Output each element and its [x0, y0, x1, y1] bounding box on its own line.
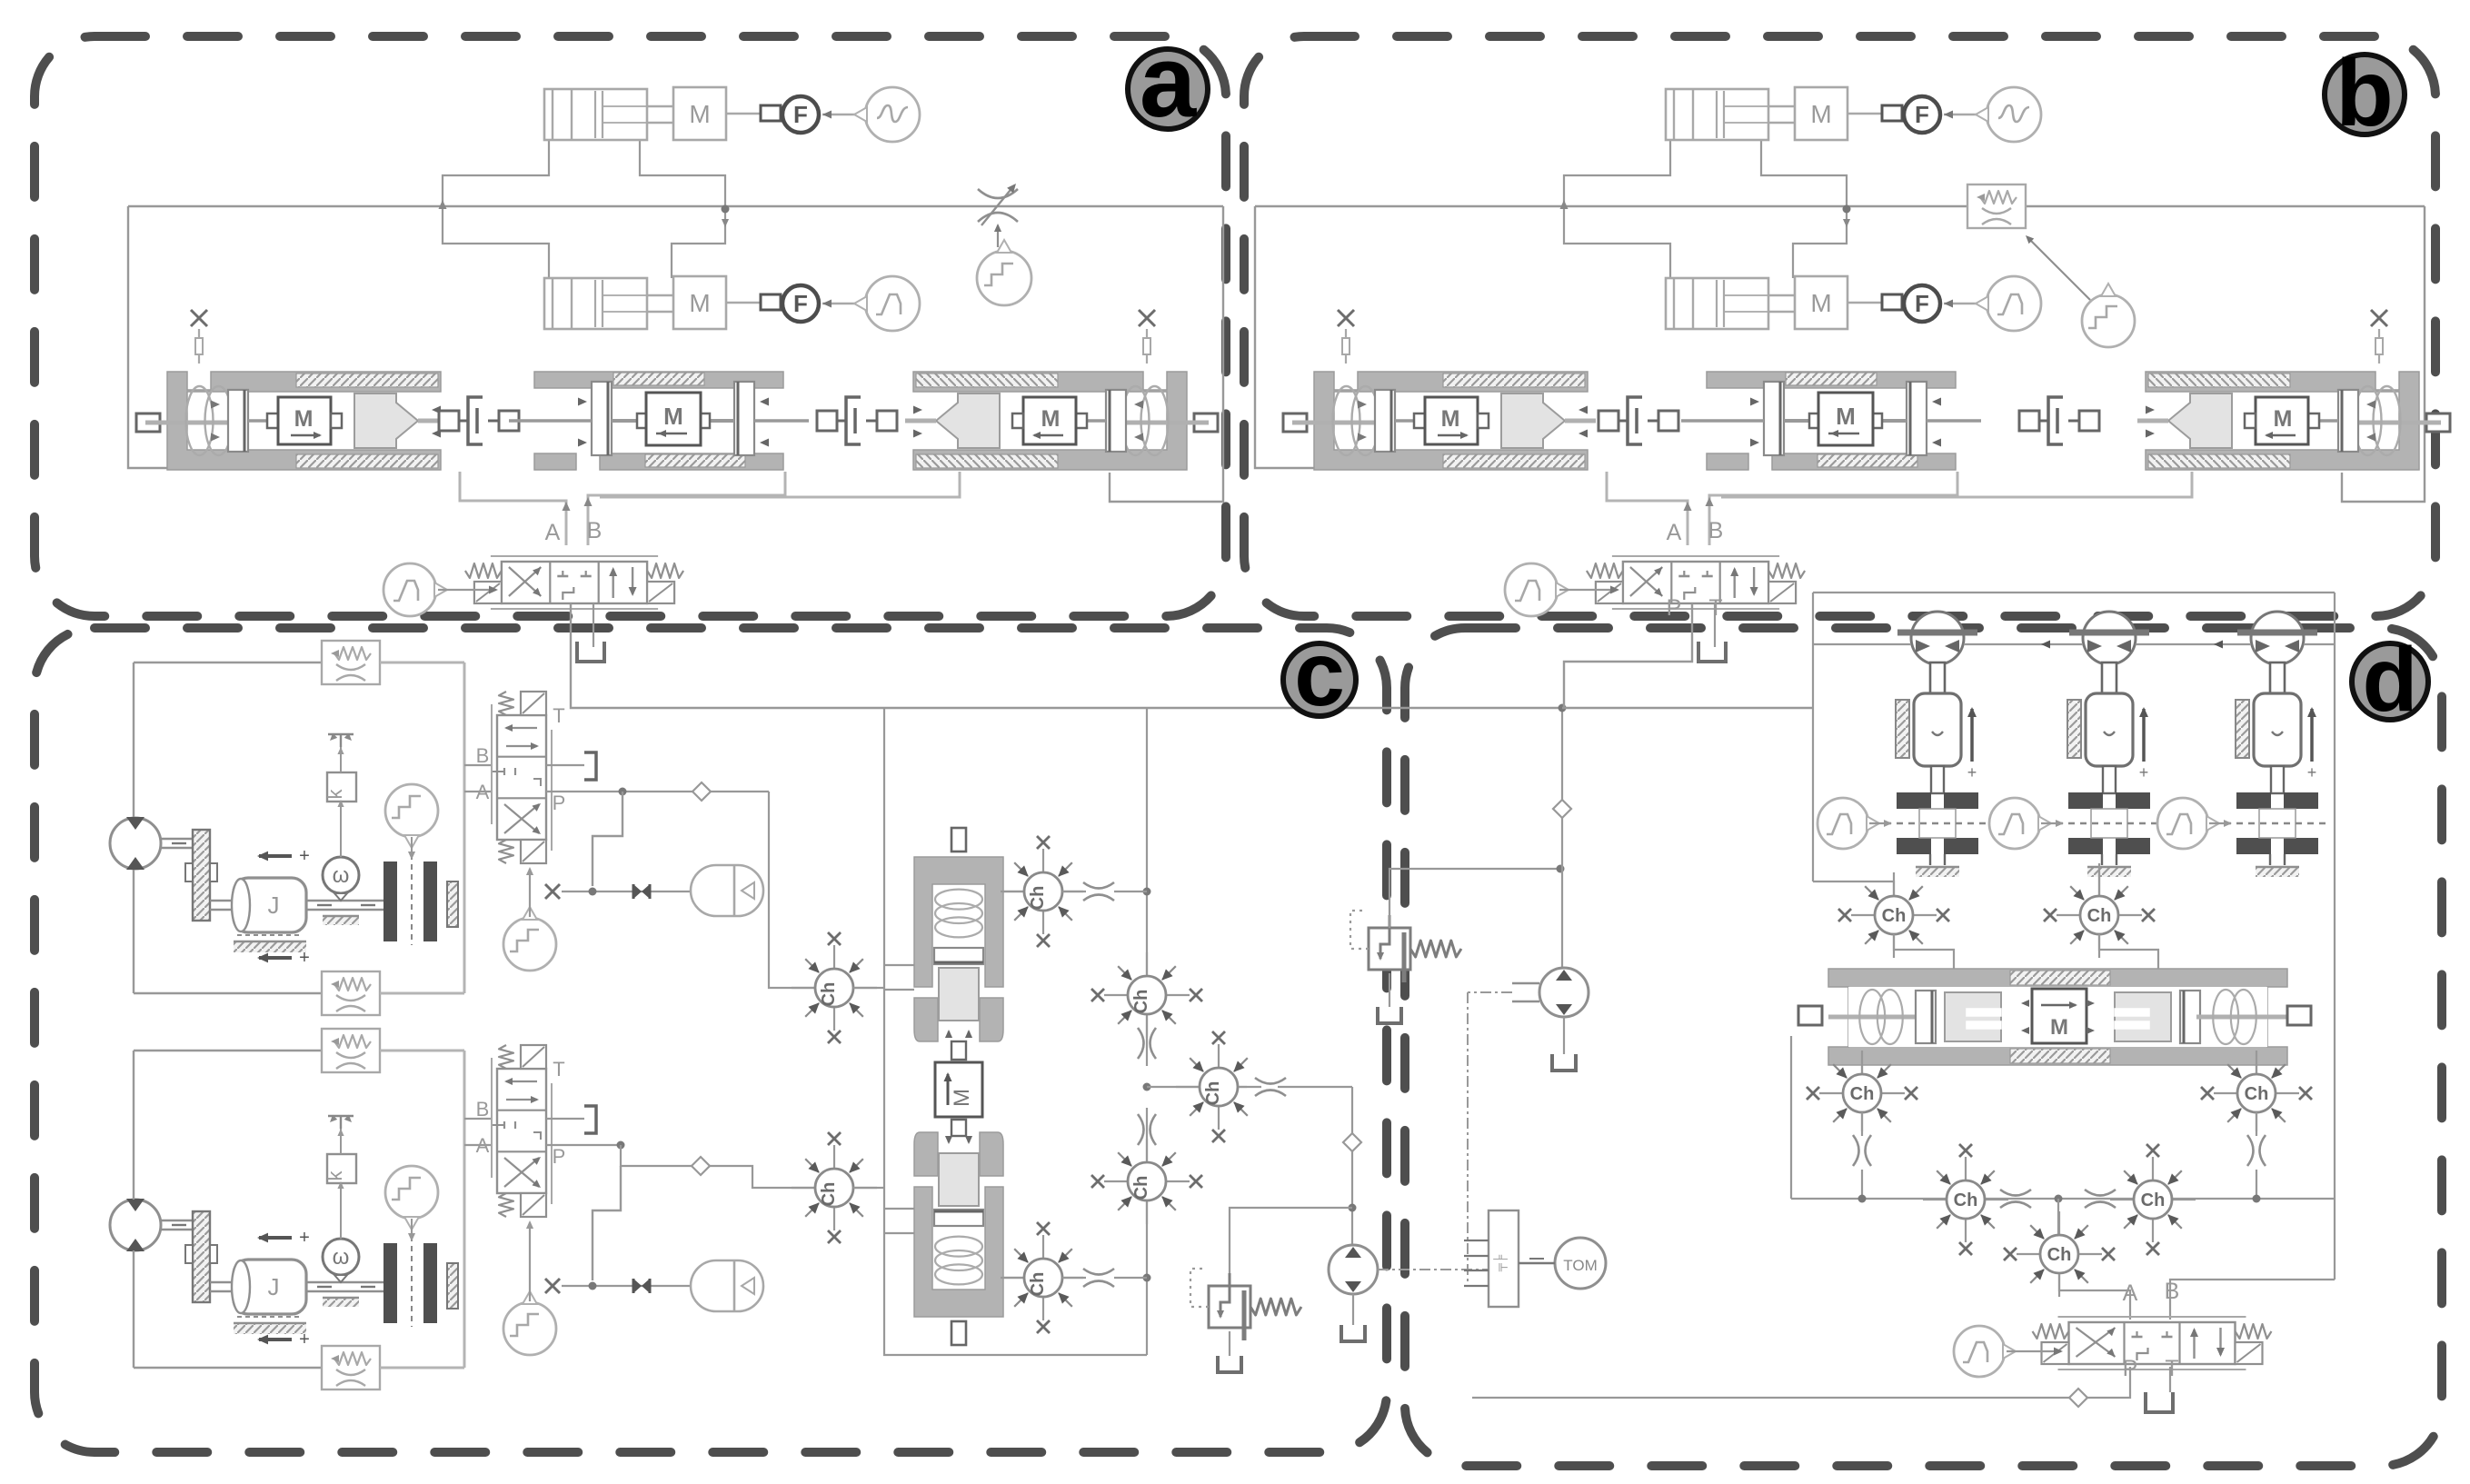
- chamber Ch d4: [2256, 1051, 2257, 1074]
- spool valve assembly center (panel a): [509, 372, 809, 470]
- wire loop 2 left rail: [133, 1051, 134, 1200]
- relief valve 2: [1209, 1286, 1250, 1328]
- wire valve to chamber d3: [1861, 1065, 1863, 1074]
- wire rail to valve1 B: [464, 764, 492, 766]
- svg-text:Ch: Ch: [819, 982, 839, 1007]
- wire box2 to rail: [380, 992, 464, 995]
- svg-text:+: +: [2139, 763, 2149, 782]
- assembly end connector right: [2287, 1006, 2311, 1025]
- signal source (valve) (panel b): [1505, 563, 1558, 616]
- hydraulic cylinder: [1666, 278, 1768, 329]
- svg-text:T: T: [2165, 1356, 2178, 1381]
- gain block k: [327, 772, 356, 802]
- svg-text:P: P: [1667, 595, 1682, 621]
- central spool valve assembly: [1828, 969, 2287, 1065]
- rotary ball joint: [2083, 612, 2136, 664]
- signal source: [865, 87, 920, 142]
- wire left rail (panel b): [1255, 206, 1547, 468]
- controller block: [1489, 1210, 1519, 1307]
- signal arrow to valve: [1559, 589, 1618, 591]
- signal source (clutch): [385, 784, 438, 837]
- svg-text:Ch: Ch: [2087, 906, 2112, 926]
- junction node (panel b): [1843, 205, 1851, 214]
- ground under J: [237, 934, 303, 936]
- motion arrow: [2310, 709, 2314, 762]
- clutch wall: [447, 881, 458, 927]
- pump2 dash-dot link: [1378, 1269, 1489, 1270]
- svg-text:M: M: [1810, 100, 1831, 128]
- rod damper left (panel a): [439, 411, 459, 431]
- svg-text:Ch: Ch: [1203, 1081, 1223, 1106]
- signal source (unit): [1818, 798, 1868, 849]
- mass block M: [673, 87, 726, 140]
- bleed orifice X right (panel a): [1139, 310, 1155, 326]
- wire ch d1 to valve: [1894, 934, 1954, 969]
- svg-text:M: M: [689, 100, 710, 128]
- svg-text:b: b: [2336, 41, 2394, 146]
- pump 2: [1329, 1245, 1378, 1294]
- svg-text:+: +: [299, 1228, 310, 1248]
- svg-text:TOM: TOM: [1563, 1257, 1597, 1274]
- svg-text:+: +: [299, 948, 310, 968]
- valve d P line: [2087, 1367, 2130, 1398]
- piston rod: [2271, 766, 2284, 793]
- throttle cartridge upper: [1062, 891, 1083, 892]
- svg-text:B: B: [2165, 1279, 2180, 1304]
- check valve 2: [692, 1157, 710, 1175]
- force arrow lower: [259, 1338, 292, 1341]
- svg-text:Ch: Ch: [1028, 886, 1048, 911]
- wire cross right stair (panel a): [640, 140, 725, 209]
- svg-text:B: B: [476, 744, 490, 767]
- svg-text:+: +: [1967, 763, 1977, 782]
- svg-text:k: k: [324, 1170, 346, 1181]
- vertical cylinder: [2086, 693, 2133, 766]
- signal arrow valve1: [529, 869, 531, 917]
- motion arrow: [2142, 709, 2146, 762]
- TOM motor: [1555, 1238, 1606, 1289]
- long return wire: [1472, 1397, 2070, 1399]
- signal source (unit): [2157, 798, 2208, 849]
- svg-text:M: M: [950, 1089, 974, 1107]
- svg-text:T: T: [553, 704, 564, 727]
- valve1 tank bracket: [584, 752, 596, 780]
- inertia J: [234, 878, 306, 932]
- force sensor F: [782, 96, 819, 133]
- svg-text:M: M: [1836, 403, 1856, 430]
- svg-text:+: +: [299, 1330, 310, 1350]
- shaft right: [306, 1281, 386, 1283]
- svg-text:a: a: [1140, 25, 1197, 138]
- panel label d: [2352, 643, 2428, 720]
- wire valve B to frame: [2170, 1280, 2335, 1320]
- bleed orifice X right (panel b): [2371, 310, 2387, 326]
- lower shaft: [210, 1281, 235, 1283]
- svg-text:J: J: [268, 1273, 280, 1300]
- signal source valve 1: [503, 918, 556, 971]
- signal arrow: [1944, 114, 1986, 115]
- clutch plates: [383, 862, 397, 941]
- cartridge frame right trunk: [1146, 1202, 1148, 1355]
- signal arrow valve2: [529, 1222, 531, 1301]
- svg-text:M: M: [1810, 289, 1831, 317]
- cartridge stub upper: [951, 828, 966, 852]
- wire main rail (panel a): [128, 205, 1223, 207]
- wire ch d7 to valve A: [2059, 1274, 2130, 1320]
- pump 1: [1539, 968, 1589, 1017]
- svg-text:B: B: [1708, 518, 1724, 543]
- panel d dashed border: [1405, 628, 2442, 1466]
- svg-text:A: A: [545, 520, 561, 545]
- svg-text:P: P: [553, 792, 566, 814]
- b valve drain wire: [1564, 603, 1692, 708]
- piston rod: [1931, 766, 1944, 793]
- hydraulic motor: [110, 818, 161, 869]
- valve tank symbol (panel a): [577, 642, 604, 662]
- frame left wire: [1812, 593, 1814, 881]
- mass block M: [673, 276, 726, 329]
- signal source: [1987, 276, 2041, 331]
- throttle cartridge lower: [1062, 1277, 1083, 1279]
- svg-text:M: M: [1441, 406, 1460, 432]
- svg-text:╤╞: ╤╞: [1493, 1254, 1509, 1272]
- svg-text:M: M: [663, 403, 683, 430]
- wire assembly to valve port A (panel a): [460, 472, 566, 545]
- hydraulic cylinder: [1666, 89, 1768, 140]
- cartridge side ports lower: [884, 1208, 914, 1210]
- trunk junction: [1143, 1083, 1151, 1091]
- wire cross left stair (panel b): [1564, 140, 1670, 278]
- wire valve2 rail: [463, 1051, 466, 1368]
- svg-text:A: A: [2123, 1280, 2138, 1306]
- cylinder wall hatch: [2067, 700, 2081, 758]
- signal arrow: [822, 303, 864, 304]
- signal source (throttle box, panel b): [2082, 294, 2135, 347]
- lower shaft: [210, 900, 235, 901]
- 4/3 directional valve (panel d): [2069, 1322, 2236, 1364]
- chamber Ch d6: [2152, 1157, 2154, 1180]
- rod damper right (panel b): [2019, 411, 2039, 431]
- valve2 tank bracket: [584, 1106, 596, 1133]
- relief1 tank: [1389, 973, 1390, 1007]
- svg-text:Ch: Ch: [1131, 1176, 1151, 1200]
- spring throttle box (panel b): [1967, 184, 2026, 228]
- accumulator 2: [691, 1260, 763, 1311]
- mass block M: [1795, 276, 1848, 329]
- svg-text:M: M: [2050, 1015, 2068, 1040]
- wire rail to valve2 A: [464, 1144, 492, 1146]
- signal source (unit): [1989, 798, 2040, 849]
- piston stem: [2270, 662, 2285, 693]
- check valve 1: [692, 782, 711, 801]
- throttle d4: [2256, 1112, 2257, 1131]
- inertia plates: [2068, 792, 2103, 809]
- check valve pump1: [1553, 800, 1571, 818]
- velocity reference symbol: [328, 733, 354, 735]
- throttle spring box 1: [322, 641, 380, 684]
- servo valve 1 (vertical): [476, 692, 566, 863]
- accumulator 1: [691, 865, 763, 916]
- link rod: [1848, 302, 1882, 304]
- throttle spring box 2: [322, 971, 380, 1015]
- wire branch down: [1351, 1087, 1353, 1246]
- svg-text:ω: ω: [333, 1245, 350, 1270]
- mass block M: [1795, 87, 1848, 140]
- svg-text:F: F: [793, 101, 808, 128]
- signal source: [1987, 87, 2041, 142]
- svg-text:Ch: Ch: [2047, 1245, 2072, 1265]
- chamber Ch left 1: [833, 945, 835, 969]
- speed sensor w: [323, 857, 359, 893]
- shaft right: [306, 900, 386, 901]
- svg-text:A: A: [476, 1134, 490, 1157]
- chamber Ch trunk A: [1146, 952, 1148, 976]
- wire loop 1 left rail: [133, 662, 134, 818]
- force sensor F: [1904, 285, 1940, 322]
- panel label a: [1128, 49, 1208, 129]
- svg-text:Ch: Ch: [1850, 1084, 1875, 1104]
- signal source (valve) (panel a): [383, 563, 436, 616]
- valve tank symbol (panel b): [1698, 642, 1726, 662]
- pilot row 1: [562, 891, 691, 892]
- wire pilot step 1: [593, 792, 622, 886]
- vertical cylinder: [2254, 693, 2301, 766]
- signal arrow to throttle: [997, 225, 999, 247]
- motion arrow: [1970, 709, 1974, 762]
- svg-text:F: F: [793, 290, 808, 317]
- cartridge frame left: [884, 708, 1147, 1355]
- pump 1 feed: [1561, 708, 1563, 968]
- link wires between units: [1813, 643, 1911, 645]
- svg-text:Ch: Ch: [2245, 1084, 2269, 1104]
- spool valve assembly right (panel a): [905, 372, 1218, 470]
- signal arrow: [1944, 303, 1986, 304]
- inertia J: [234, 1260, 306, 1314]
- force arrow lower: [259, 956, 292, 960]
- force sensor F: [782, 285, 819, 322]
- wire P to chamber1: [769, 792, 815, 988]
- TOM shaft: [1519, 1262, 1555, 1265]
- gear flange: [193, 830, 210, 921]
- wire cross left stair (panel a): [443, 140, 549, 278]
- velocity reference symbol: [328, 1115, 354, 1117]
- wire to relief 2: [1230, 1208, 1352, 1286]
- svg-text:+: +: [2307, 763, 2317, 782]
- check valve branch: [1343, 1133, 1361, 1151]
- check valve d: [2069, 1389, 2087, 1407]
- speed sensor w: [323, 1239, 359, 1275]
- spool valve assembly left (panel a): [136, 372, 449, 470]
- valve d tank: [2169, 1367, 2171, 1392]
- svg-text:ω: ω: [333, 863, 350, 888]
- throttle d3: [1861, 1112, 1863, 1131]
- wire assembly to valve port A (panel b): [1607, 472, 1688, 545]
- svg-text:B: B: [476, 1098, 490, 1120]
- cartridge stub lower: [951, 1321, 966, 1345]
- unit ground: [1929, 854, 1931, 865]
- motor shaft: [161, 838, 194, 840]
- manifold throttle left: [2000, 1190, 2031, 1196]
- wire k up: [340, 1127, 342, 1154]
- signal source: [865, 276, 920, 331]
- bleed orifice X left (panel a): [191, 310, 207, 326]
- chamber Ch d5: [1965, 1157, 1967, 1180]
- cross-panel supply wire: [571, 603, 1562, 708]
- unit ground: [2269, 854, 2271, 865]
- chamber Ch d7: [2058, 1211, 2060, 1235]
- inertia plates: [1897, 792, 1931, 809]
- hydraulic cylinder: [544, 89, 647, 140]
- svg-text:M: M: [689, 289, 710, 317]
- gear flange: [193, 1211, 210, 1302]
- signal arrow to valve: [438, 589, 496, 591]
- piston stem: [1930, 662, 1945, 693]
- junction node (panel a): [722, 205, 730, 214]
- spool valve assembly center (panel b): [1681, 372, 1981, 470]
- panel b dashed border: [1244, 36, 2435, 616]
- wire valve1 P line: [546, 791, 769, 792]
- svg-text:Ch: Ch: [1954, 1190, 1978, 1210]
- svg-text:M: M: [294, 406, 314, 432]
- svg-text:c: c: [1294, 623, 1345, 725]
- chamber Ch trunk B: [1146, 1139, 1148, 1162]
- relief2 tank: [1229, 1331, 1230, 1356]
- rod damper right (panel a): [817, 411, 837, 431]
- wire valve1 rail: [463, 662, 466, 993]
- pump1 stubs: [1512, 982, 1539, 984]
- panel label b: [2325, 55, 2405, 134]
- signal source valve 2: [503, 1302, 556, 1355]
- wire left rail (panel a): [128, 206, 400, 468]
- trunk throttle lower: [1138, 1114, 1144, 1145]
- wire assembly to valve port B (panel b): [1709, 472, 1957, 545]
- wire to chamber d2: [2098, 863, 2100, 896]
- panel c dashed border: [35, 628, 1387, 1452]
- spool valve assembly right (panel b): [2137, 372, 2450, 470]
- svg-text:+: +: [299, 846, 310, 866]
- spool valve assembly left (panel b): [1283, 372, 1596, 470]
- wire valve2 P line: [546, 1144, 621, 1146]
- signal source (valve d): [1954, 1326, 2005, 1377]
- svg-text:F: F: [1915, 101, 1929, 128]
- chamber Ch d3: [1861, 1051, 1863, 1074]
- pilot row 2: [562, 1285, 691, 1287]
- relief1 feed wire: [1389, 869, 1560, 928]
- wire rail to valve2 B: [464, 1118, 492, 1120]
- wire ch d2 to valve: [2099, 934, 2158, 969]
- wire to chamber d7: [2057, 1199, 2059, 1234]
- force arrow upper: [259, 1236, 292, 1240]
- svg-text:A: A: [1667, 520, 1682, 545]
- svg-text:M: M: [2274, 406, 2293, 432]
- bleed orifice X left (panel b): [1338, 310, 1354, 326]
- clutch plates: [383, 1243, 397, 1323]
- wire to chamber d1: [1813, 881, 1894, 896]
- inertia plates: [2236, 792, 2271, 809]
- manifold throttle right: [2085, 1190, 2116, 1196]
- wire right assembly down (panel b): [1721, 472, 2192, 497]
- rotary ball joint: [2251, 612, 2304, 664]
- shutoff valve 2: [633, 1279, 650, 1293]
- hydraulic motor: [110, 1200, 161, 1250]
- wire right rail (panel b): [2342, 206, 2425, 502]
- unit ground: [2101, 854, 2103, 865]
- svg-text:J: J: [268, 891, 280, 919]
- svg-text:Ch: Ch: [1131, 990, 1151, 1014]
- force arrow upper: [259, 854, 292, 858]
- throttle spring box 3: [322, 1029, 380, 1072]
- svg-text:Ch: Ch: [2141, 1190, 2166, 1210]
- variable throttle (panel a): [978, 189, 1018, 198]
- throttle spring box 4: [322, 1346, 380, 1389]
- piston rod: [2103, 766, 2116, 793]
- wire loop 2 bottom: [134, 1367, 323, 1369]
- wire assembly to valve port B (panel a): [588, 472, 785, 545]
- ground under J: [237, 1316, 303, 1318]
- wire loop 1 top: [134, 662, 323, 663]
- pump2 tank: [1352, 1294, 1354, 1325]
- wire box1 to rail: [380, 662, 464, 664]
- wire cross right stair (panel b): [1761, 140, 1847, 209]
- svg-text:P: P: [553, 1145, 566, 1168]
- pump1 dash-dot link: [1468, 991, 1512, 993]
- wire k up: [340, 745, 342, 772]
- shutoff valve 1: [633, 884, 650, 899]
- supply wire to panel d: [1562, 707, 1813, 709]
- cartridge side ports upper: [884, 964, 914, 966]
- svg-text:A: A: [476, 781, 490, 803]
- hydraulic cylinder: [544, 278, 647, 329]
- panel a dashed border: [35, 36, 1226, 616]
- motor shaft: [161, 1220, 194, 1221]
- svg-text:Ch: Ch: [819, 1182, 839, 1207]
- svg-text:F: F: [1915, 290, 1929, 317]
- frame top wire: [1813, 592, 2335, 593]
- wire P2 to chamber2: [621, 1145, 692, 1166]
- chamber Ch d2: [2098, 872, 2100, 896]
- wire ch1 to frame: [853, 987, 884, 989]
- force sensor F: [1904, 96, 1940, 133]
- clutch wall: [447, 1263, 458, 1309]
- rotary ball joint: [1911, 612, 1964, 664]
- svg-text:B: B: [587, 518, 603, 543]
- branch to relief: [1147, 1086, 1199, 1088]
- frame right wire: [2334, 593, 2336, 1280]
- branch throttle: [1239, 1086, 1247, 1088]
- wire w to k: [340, 1183, 342, 1239]
- wire right rail (panel a): [1110, 206, 1223, 502]
- link rod: [726, 113, 761, 115]
- pump1 tank: [1563, 1017, 1565, 1054]
- piston stem: [2102, 662, 2116, 693]
- 4/3 directional valve (panel b): [1623, 562, 1768, 603]
- wire loop 1 bottom: [134, 992, 323, 994]
- wire rail to valve1 A: [464, 791, 492, 792]
- chamber Ch left 2: [833, 1145, 835, 1169]
- 4/3 directional valve (panel a): [502, 562, 647, 603]
- svg-text:Ch: Ch: [1882, 906, 1907, 926]
- wire valve to chamber d4: [2256, 1065, 2257, 1074]
- lower manifold wire: [1791, 1198, 2335, 1200]
- wire cross lower right (panel a): [672, 209, 725, 278]
- vertical cylinder: [1914, 693, 1961, 766]
- trunk throttle upper: [1138, 1028, 1144, 1059]
- servo valve 2 (vertical): [476, 1045, 566, 1217]
- wire right assembly down (panel a): [600, 472, 960, 497]
- cartridge valve lower: [914, 1132, 1003, 1317]
- wire w to k: [340, 802, 342, 857]
- link rod: [1848, 113, 1882, 115]
